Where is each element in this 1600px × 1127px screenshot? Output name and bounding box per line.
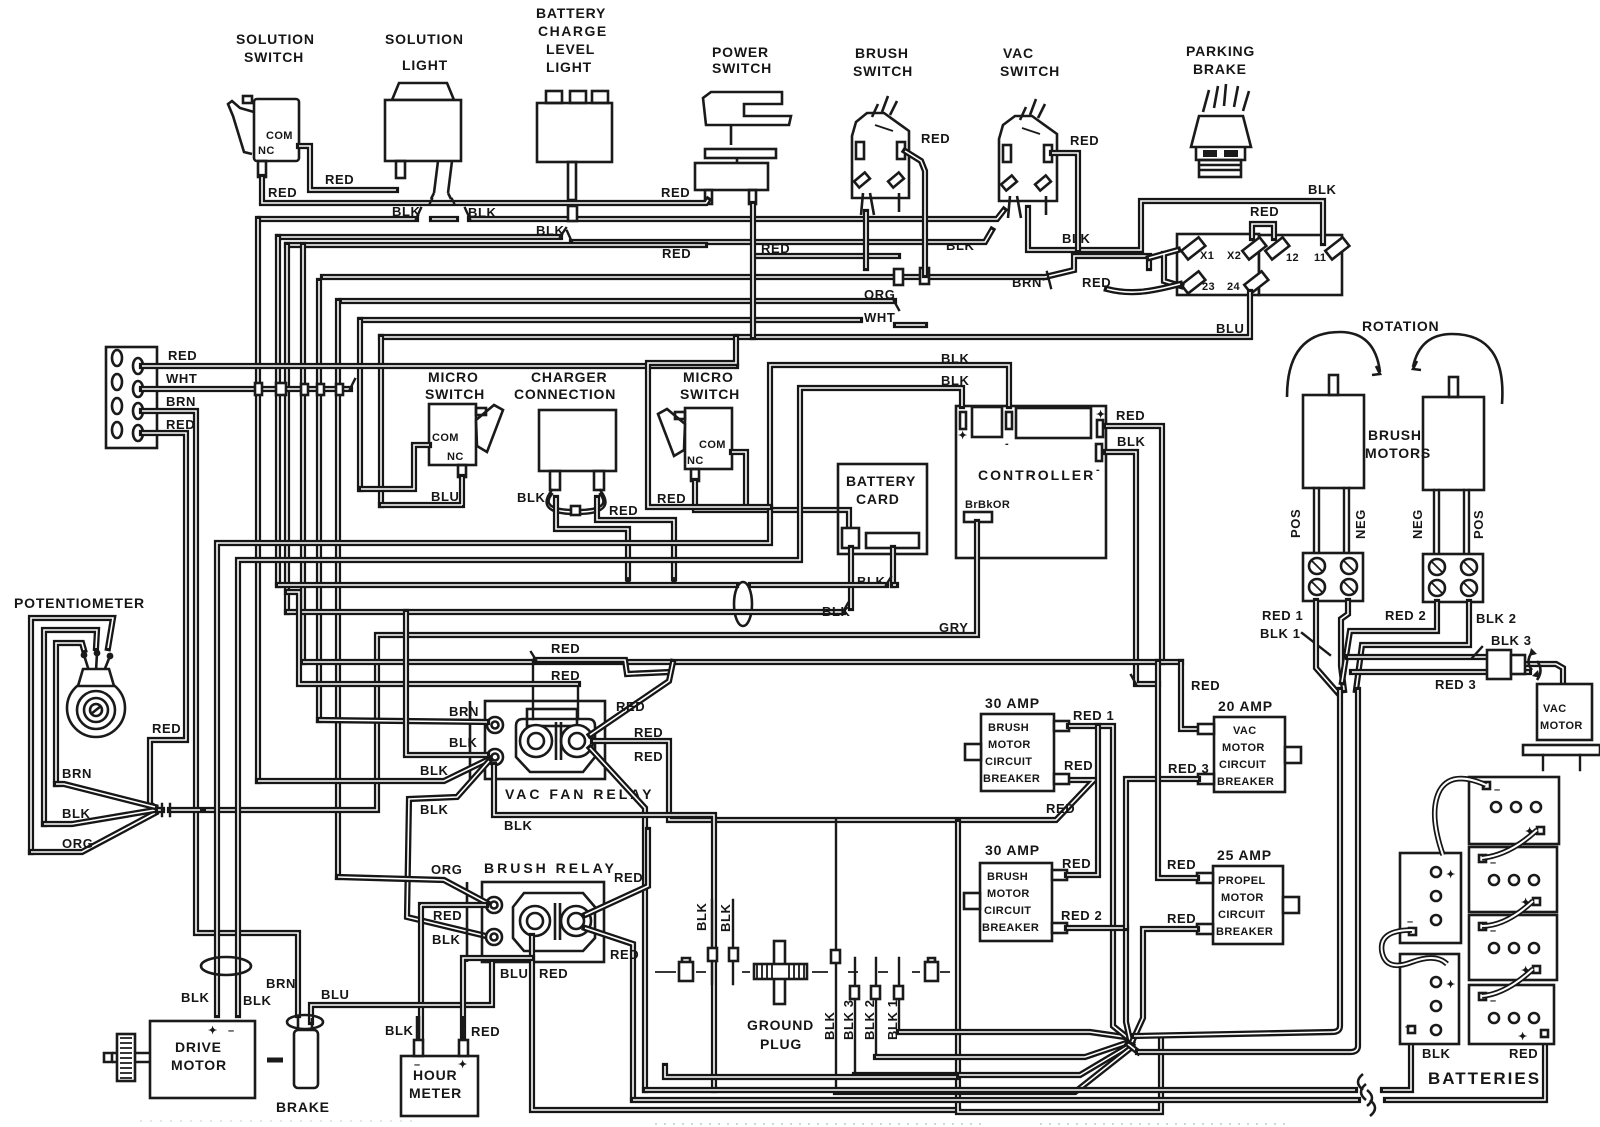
- svg-text:BLK: BLK: [1117, 434, 1146, 449]
- svg-text:RED: RED: [325, 172, 354, 187]
- svg-text:CARD: CARD: [856, 491, 900, 507]
- wire trunk junction lines: [1128, 1036, 1138, 1052]
- svg-text:WHT: WHT: [864, 310, 895, 325]
- svg-text:CONTROLLER: CONTROLLER: [978, 467, 1095, 483]
- svg-text:25 AMP: 25 AMP: [1217, 847, 1272, 863]
- svg-text:BLK: BLK: [420, 763, 449, 778]
- svg-text:11: 11: [1314, 252, 1326, 264]
- wire BLK charger drop stub: [556, 498, 628, 578]
- wire BLK into vac relay lower: [406, 612, 487, 755]
- wire BLK bus L3: [278, 230, 992, 242]
- dash between motor and brake: [267, 1058, 283, 1063]
- svg-text:RED: RED: [539, 966, 568, 981]
- svg-text:BLK: BLK: [392, 204, 421, 219]
- wire RED3 CB3 bottom: [1126, 779, 1198, 928]
- wire RED charger drop stub: [597, 498, 674, 578]
- wire right center vertical from breaker RED: [958, 822, 1161, 1112]
- wire BLK diagonal from A: [258, 759, 489, 781]
- wire BLK3 line to connector: [1348, 654, 1487, 660]
- svg-text:RED: RED: [471, 1024, 500, 1039]
- wire WHT bus L7: [361, 320, 925, 325]
- svg-text:LIGHT: LIGHT: [402, 57, 448, 73]
- circuit breaker CB4 25A propel: [1197, 866, 1299, 944]
- svg-text:RED: RED: [433, 908, 462, 923]
- svg-text:MOTOR: MOTOR: [987, 888, 1030, 900]
- svg-text:RED: RED: [1250, 204, 1279, 219]
- brush relay K2: [467, 882, 604, 962]
- svg-text:LIGHT: LIGHT: [546, 59, 592, 75]
- battery 4 details: [1479, 993, 1548, 1043]
- power switch S2: [695, 92, 791, 204]
- svg-text:MOTOR: MOTOR: [171, 1057, 227, 1073]
- svg-text:SWITCH: SWITCH: [712, 60, 772, 76]
- svg-text:BREAKER: BREAKER: [982, 922, 1039, 934]
- wire RED2 CB2 bottom: [1067, 928, 1130, 1040]
- svg-text:12: 12: [1286, 252, 1299, 264]
- svg-text:–: –: [414, 1059, 421, 1071]
- svg-text:RED: RED: [1064, 758, 1093, 773]
- battery charge level light L2: [537, 91, 612, 200]
- svg-text:CIRCUIT: CIRCUIT: [1219, 759, 1266, 771]
- svg-text:BREAKER: BREAKER: [1216, 926, 1273, 938]
- wire BLK2 pin: [875, 958, 877, 1057]
- svg-text:SWITCH: SWITCH: [425, 386, 485, 402]
- svg-text:CHARGER: CHARGER: [531, 369, 607, 385]
- svg-text:RED: RED: [166, 417, 195, 432]
- svg-text:BREAKER: BREAKER: [1217, 776, 1274, 788]
- svg-text:X2: X2: [1227, 250, 1241, 262]
- wire hour meter right feed: [463, 958, 532, 1040]
- wire RED CB4 top from controller: [1158, 662, 1197, 878]
- svg-text:30 AMP: 30 AMP: [985, 842, 1040, 858]
- wire ORG bus L6: [342, 298, 894, 304]
- wire RED brush relay down right: [585, 928, 633, 1099]
- solution switch S1: [228, 96, 299, 177]
- circuit breaker CB3 20A vac: [1198, 717, 1301, 792]
- charger connection CH1: [539, 410, 616, 490]
- svg-text:✦: ✦: [1446, 869, 1456, 881]
- svg-text:23: 23: [1202, 281, 1215, 293]
- svg-text:BRAKE: BRAKE: [1193, 61, 1247, 77]
- wire vertical F x338: [335, 301, 341, 877]
- svg-text:NEG: NEG: [1353, 509, 1368, 539]
- svg-text:GRY: GRY: [939, 620, 969, 635]
- svg-text:BLK: BLK: [1308, 182, 1337, 197]
- wire RED vac relay diagonal down: [590, 748, 645, 1090]
- battery 1 details: [1483, 782, 1544, 838]
- hour meter HM1: [401, 1056, 478, 1116]
- wire RED vac relay to bus y662: [590, 662, 673, 735]
- svg-text:BLK: BLK: [822, 1011, 837, 1040]
- wire callout BLK1: [1302, 633, 1330, 655]
- svg-text:PARKING: PARKING: [1186, 43, 1255, 59]
- wire brush motor leads POS NEG: [1314, 488, 1349, 553]
- svg-text:RED: RED: [616, 699, 645, 714]
- svg-text:BRUSH: BRUSH: [1368, 427, 1422, 443]
- svg-text:RED: RED: [1062, 856, 1091, 871]
- wire RED bus L4: [287, 245, 898, 256]
- svg-text:COM: COM: [432, 432, 459, 444]
- svg-text:BLK: BLK: [941, 351, 970, 366]
- battery light pin connector on L2: [568, 206, 577, 221]
- svg-text:RED 2: RED 2: [1385, 608, 1426, 623]
- micro switch MS1: [429, 404, 503, 477]
- wire bundle BLK2 to convergence: [876, 1041, 1132, 1057]
- wire motor fan-in right block: [1342, 602, 1437, 682]
- wire BLK hour meter pin: [416, 1016, 421, 1056]
- wire vertical A x258: [255, 219, 261, 781]
- connector block J1: [106, 347, 157, 448]
- svg-text:RED: RED: [1167, 911, 1196, 926]
- wire RED second row into relay: [287, 592, 578, 684]
- wire RED vac relay right to breaker1: [593, 741, 1094, 820]
- wire BLU MS1 NC pin: [381, 477, 462, 505]
- svg-text:RED: RED: [662, 246, 691, 261]
- potentiometer POT1: [14, 595, 155, 852]
- vac fan relay K1: [470, 701, 605, 779]
- wire BRN into vac relay coil: [319, 720, 487, 722]
- wire loop drive motor leads: [201, 957, 251, 975]
- svg-text:RED 2: RED 2: [1061, 908, 1102, 923]
- svg-text:RED: RED: [634, 749, 663, 764]
- svg-text:CIRCUIT: CIRCUIT: [1218, 909, 1265, 921]
- svg-text:BLK 3: BLK 3: [1491, 633, 1532, 648]
- svg-text:METER: METER: [409, 1085, 462, 1101]
- svg-text:30 AMP: 30 AMP: [985, 695, 1040, 711]
- svg-text:WHT: WHT: [166, 371, 197, 386]
- svg-text:✦: ✦: [458, 1059, 468, 1071]
- wire BLK vac switch to terminal 11: [1028, 201, 1323, 250]
- svg-text:RED: RED: [1070, 133, 1099, 148]
- svg-text:BLK: BLK: [1422, 1046, 1451, 1061]
- svg-text:RED 3: RED 3: [1168, 761, 1209, 776]
- battery jumper cables: [1435, 779, 1486, 855]
- wire vertical C x287: [284, 245, 290, 612]
- svg-text:BATTERY: BATTERY: [846, 473, 916, 489]
- wire BLU brush relay drop: [311, 962, 492, 1022]
- svg-text:BRN: BRN: [166, 394, 196, 409]
- svg-text:MOTOR: MOTOR: [1540, 720, 1583, 732]
- svg-text:✦: ✦: [958, 430, 968, 442]
- brush switch S3: [852, 96, 909, 215]
- solution light L1: [385, 83, 461, 199]
- battery 6 details: [1405, 977, 1456, 1035]
- drive motor M1: [104, 1021, 255, 1098]
- wire RED vac-breaker drop: [1181, 662, 1198, 729]
- wire RED MS2 pin to battery card: [695, 481, 849, 532]
- svg-text:DRIVE: DRIVE: [175, 1039, 222, 1055]
- vac motor: [1523, 684, 1600, 770]
- svg-text:SWITCH: SWITCH: [1000, 63, 1060, 79]
- svg-text:BLK: BLK: [718, 903, 733, 932]
- wire WHT J1 row2: [142, 386, 350, 392]
- svg-text:BLK 3: BLK 3: [841, 999, 856, 1040]
- vac switch S4: [999, 99, 1057, 218]
- battery card BC1: [838, 464, 927, 554]
- svg-text:BRN: BRN: [266, 976, 296, 991]
- svg-text:RED 3: RED 3: [1435, 677, 1476, 692]
- svg-text:SOLUTION: SOLUTION: [385, 31, 464, 47]
- svg-text:BRUSH RELAY: BRUSH RELAY: [484, 860, 617, 876]
- wire RED into X1 and jumper to 23: [1149, 250, 1181, 286]
- wire RED solution switch NC bus L1: [262, 177, 708, 203]
- svg-text:BLK: BLK: [694, 902, 709, 931]
- svg-text:RED: RED: [657, 491, 686, 506]
- wire RED vac relay top hook line: [536, 660, 670, 674]
- wire BLK controller top-mid: [217, 365, 1009, 1015]
- wire vertical G x360: [357, 320, 363, 489]
- svg-text:LEVEL: LEVEL: [546, 41, 595, 57]
- svg-text:BLK: BLK: [822, 604, 851, 619]
- wire RED brush relay left drop: [532, 936, 958, 1110]
- wire jump loop at x743 y585: [734, 582, 752, 626]
- svg-text:RED: RED: [1167, 857, 1196, 872]
- svg-text:RED: RED: [1191, 678, 1220, 693]
- svg-text:MOTOR: MOTOR: [988, 739, 1031, 751]
- svg-text:RED: RED: [551, 641, 580, 656]
- wire bundle BLK1 to convergence: [899, 1032, 1132, 1038]
- wire MS2 right stub down: [732, 452, 746, 507]
- circuit breaker CB2 30A brush: [964, 863, 1067, 941]
- parking brake symbol: [1191, 84, 1251, 177]
- svg-text:CIRCUIT: CIRCUIT: [985, 756, 1032, 768]
- wire BLK controller top-left: [238, 388, 962, 1015]
- svg-text:BLK: BLK: [504, 818, 533, 833]
- svg-text:-: -: [1005, 438, 1009, 450]
- svg-text:NC: NC: [258, 145, 275, 157]
- brake B1: [276, 1015, 330, 1115]
- svg-text:RED: RED: [634, 725, 663, 740]
- wire bundle BLK3 to convergence: [855, 1044, 1132, 1075]
- wire BLK bus L2: [260, 210, 1004, 219]
- svg-text:BLU: BLU: [1216, 321, 1245, 336]
- svg-text:BLU: BLU: [321, 987, 350, 1002]
- svg-text:RED: RED: [609, 503, 638, 518]
- wire vertical H x381: [378, 337, 384, 505]
- terminal block TB1: [1177, 234, 1349, 295]
- svg-text:PROPEL: PROPEL: [1218, 875, 1266, 887]
- wire RED J1 row4 to potentiometer: [142, 433, 186, 810]
- svg-text:-: -: [1096, 464, 1100, 476]
- circuit breaker CB1 30A brush: [965, 714, 1069, 791]
- svg-text:BLU: BLU: [500, 966, 529, 981]
- wire RED1 CB1: [1069, 726, 1128, 1038]
- svg-text:SOLUTION: SOLUTION: [236, 31, 315, 47]
- svg-text:VAC: VAC: [1543, 703, 1567, 715]
- wire RED controller right: [1106, 426, 1162, 662]
- svg-text:20 AMP: 20 AMP: [1218, 698, 1273, 714]
- scan artifact dots bottom edge: [655, 1123, 985, 1125]
- brush motor right: [1423, 377, 1484, 490]
- micro switch MS2: [658, 408, 732, 481]
- wire bus y662 main feed: [303, 659, 1181, 665]
- svg-text:BRN: BRN: [1012, 275, 1042, 290]
- svg-text:–: –: [1407, 916, 1414, 928]
- wire bundle BLK to convergence: [836, 1047, 1132, 1092]
- svg-text:RED: RED: [268, 185, 297, 200]
- svg-text:MOTOR: MOTOR: [1221, 892, 1264, 904]
- svg-text:BRAKE: BRAKE: [276, 1099, 330, 1115]
- svg-text:POS: POS: [1288, 509, 1303, 538]
- motor terminal block right: [1423, 554, 1483, 602]
- wire trunk T2: [1138, 690, 1358, 1052]
- svg-text:✦: ✦: [1446, 979, 1456, 991]
- wire BLK battery bottom bus: [645, 1037, 1411, 1090]
- wire stub bus to x956: [665, 1066, 956, 1077]
- svg-text:BLK: BLK: [468, 205, 497, 220]
- wire brush switch RED right side: [905, 151, 925, 275]
- wire RED diagonal into 23: [1107, 284, 1180, 292]
- svg-text:PLUG: PLUG: [760, 1036, 802, 1052]
- svg-text:BLK: BLK: [517, 490, 546, 505]
- wire RED solution switch COM to solution light: [299, 146, 396, 190]
- svg-text:RED 1: RED 1: [1073, 708, 1114, 723]
- svg-text:BRN: BRN: [62, 766, 92, 781]
- svg-text:BATTERIES: BATTERIES: [1428, 1069, 1541, 1088]
- svg-text:MOTORS: MOTORS: [1365, 445, 1431, 461]
- svg-text:POWER: POWER: [712, 44, 769, 60]
- tick connectors on J1 row1 wire: [255, 383, 262, 395]
- svg-text:RED: RED: [661, 185, 690, 200]
- svg-text:RED: RED: [761, 241, 790, 256]
- svg-text:MICRO: MICRO: [683, 369, 734, 385]
- ground plug assembly: [655, 900, 950, 1004]
- svg-text:BRUSH: BRUSH: [855, 45, 909, 61]
- svg-text:NC: NC: [447, 451, 464, 463]
- svg-text:BATTERY: BATTERY: [536, 5, 606, 21]
- svg-text:BLK: BLK: [243, 993, 272, 1008]
- svg-text:MICRO: MICRO: [428, 369, 479, 385]
- wire BLK charger loop: [547, 490, 575, 514]
- wire BLK1 pin: [898, 958, 900, 1032]
- svg-text:POTENTIOMETER: POTENTIOMETER: [14, 595, 145, 611]
- svg-text:ORG: ORG: [431, 862, 462, 877]
- svg-text:SWITCH: SWITCH: [853, 63, 913, 79]
- wire RED3 line to vac motor: [1352, 664, 1563, 684]
- wire BLK vac relay bottom: [494, 765, 714, 1090]
- svg-text:VAC: VAC: [1003, 45, 1034, 61]
- svg-text:NC: NC: [687, 455, 704, 467]
- wire ORG into brush relay: [338, 877, 487, 903]
- svg-text:RED: RED: [614, 870, 643, 885]
- svg-text:ORG: ORG: [62, 836, 93, 851]
- battery 2 details: [1479, 855, 1540, 909]
- svg-text:BREAKER: BREAKER: [983, 773, 1040, 785]
- svg-text:RED 1: RED 1: [1262, 608, 1303, 623]
- controller U1: [956, 406, 1106, 558]
- svg-text:ORG: ORG: [864, 287, 895, 302]
- svg-text:BLU: BLU: [431, 489, 460, 504]
- wire motor fan-in left block: [1316, 601, 1337, 692]
- svg-text:BLK 2: BLK 2: [862, 999, 877, 1040]
- svg-text:COM: COM: [699, 439, 726, 451]
- svg-text:VAC: VAC: [1233, 725, 1257, 737]
- wire bus y585 battery card BLK return: [278, 582, 896, 588]
- svg-text:BLK: BLK: [432, 932, 461, 947]
- connector BLK3: [1487, 648, 1541, 680]
- svg-text:BLK: BLK: [420, 802, 449, 817]
- svg-text:COM: COM: [266, 130, 293, 142]
- wire bus y612 BLK to brush relay zone: [287, 609, 843, 615]
- rotation arcs: [1287, 332, 1380, 397]
- svg-text:CHARGE: CHARGE: [538, 23, 608, 39]
- wire power switch to micro bracket: [648, 337, 770, 507]
- wire vertical E x319: [316, 281, 322, 720]
- brush motor left: [1303, 375, 1364, 488]
- batteries bank: [1400, 777, 1559, 1044]
- motor terminal block left: [1303, 553, 1363, 601]
- svg-text:RED: RED: [1046, 801, 1075, 816]
- jumper RED X2-12: [1252, 224, 1274, 238]
- svg-text:BLK: BLK: [385, 1023, 414, 1038]
- wire RED battery bottom bus: [633, 1040, 1545, 1100]
- wire RED CB4 bottom: [1132, 929, 1197, 1042]
- wire RED brush-vac to X1 L5: [323, 256, 1149, 277]
- wire RED charger loop: [578, 490, 605, 514]
- wire MS1 COM left stub: [361, 445, 429, 489]
- svg-text:RED: RED: [152, 721, 181, 736]
- svg-text:BLK 2: BLK 2: [1476, 611, 1517, 626]
- wire BLK3 pin: [854, 958, 856, 1075]
- wire vac switch RED right side: [1052, 153, 1078, 250]
- wire solution light legs to L1: [430, 199, 454, 203]
- wire RED hour meter pin: [461, 1016, 466, 1056]
- wire trunk T1: [1134, 690, 1340, 1036]
- svg-text:RED: RED: [921, 131, 950, 146]
- svg-text:RED: RED: [610, 947, 639, 962]
- svg-text:BLK: BLK: [449, 735, 478, 750]
- wire BLK diagonal lower: [407, 761, 489, 936]
- svg-text:✦: ✦: [1518, 1031, 1528, 1043]
- battery 5 details: [1407, 867, 1456, 935]
- svg-text:RED: RED: [551, 668, 580, 683]
- svg-text:BRN: BRN: [449, 704, 479, 719]
- svg-text:X1: X1: [1200, 250, 1214, 262]
- svg-text:ROTATION: ROTATION: [1362, 318, 1439, 334]
- wire RED into brush relay: [421, 905, 486, 1040]
- svg-text:CIRCUIT: CIRCUIT: [984, 905, 1031, 917]
- wire relay coil pins up: [533, 660, 578, 719]
- svg-text:BRUSH: BRUSH: [987, 871, 1028, 883]
- wire power switch right pin down: [750, 204, 756, 337]
- wire RED CB2 top: [1067, 726, 1098, 875]
- wire RED J1 row1: [142, 363, 736, 369]
- node potentiometer output stub: [158, 807, 200, 813]
- wire BLK controller right: [1106, 452, 1158, 684]
- svg-text:BrBkOR: BrBkOR: [965, 499, 1010, 511]
- svg-text:BLK: BLK: [62, 806, 91, 821]
- svg-text:RED: RED: [168, 348, 197, 363]
- svg-text:BLK: BLK: [181, 990, 210, 1005]
- svg-text:BLK: BLK: [941, 373, 970, 388]
- svg-text:BRUSH: BRUSH: [988, 722, 1029, 734]
- svg-text:✦: ✦: [208, 1025, 218, 1037]
- wire BRN J1 row3: [142, 411, 298, 1015]
- wire BLK battery card stub: [848, 548, 854, 608]
- svg-text:RED: RED: [1116, 408, 1145, 423]
- svg-text:POS: POS: [1471, 510, 1486, 539]
- wire brush switch left pin to L5: [863, 212, 869, 268]
- svg-text:BLK: BLK: [536, 223, 565, 238]
- wire vertical B x278: [275, 237, 281, 585]
- wire BLK tall pin: [835, 820, 837, 1092]
- svg-text:GROUND: GROUND: [747, 1017, 814, 1033]
- wire battery card right leg: [890, 548, 896, 585]
- svg-text:SWITCH: SWITCH: [680, 386, 740, 402]
- svg-text:SWITCH: SWITCH: [244, 49, 304, 65]
- svg-text:NEG: NEG: [1410, 509, 1425, 539]
- svg-text:MOTOR: MOTOR: [1222, 742, 1265, 754]
